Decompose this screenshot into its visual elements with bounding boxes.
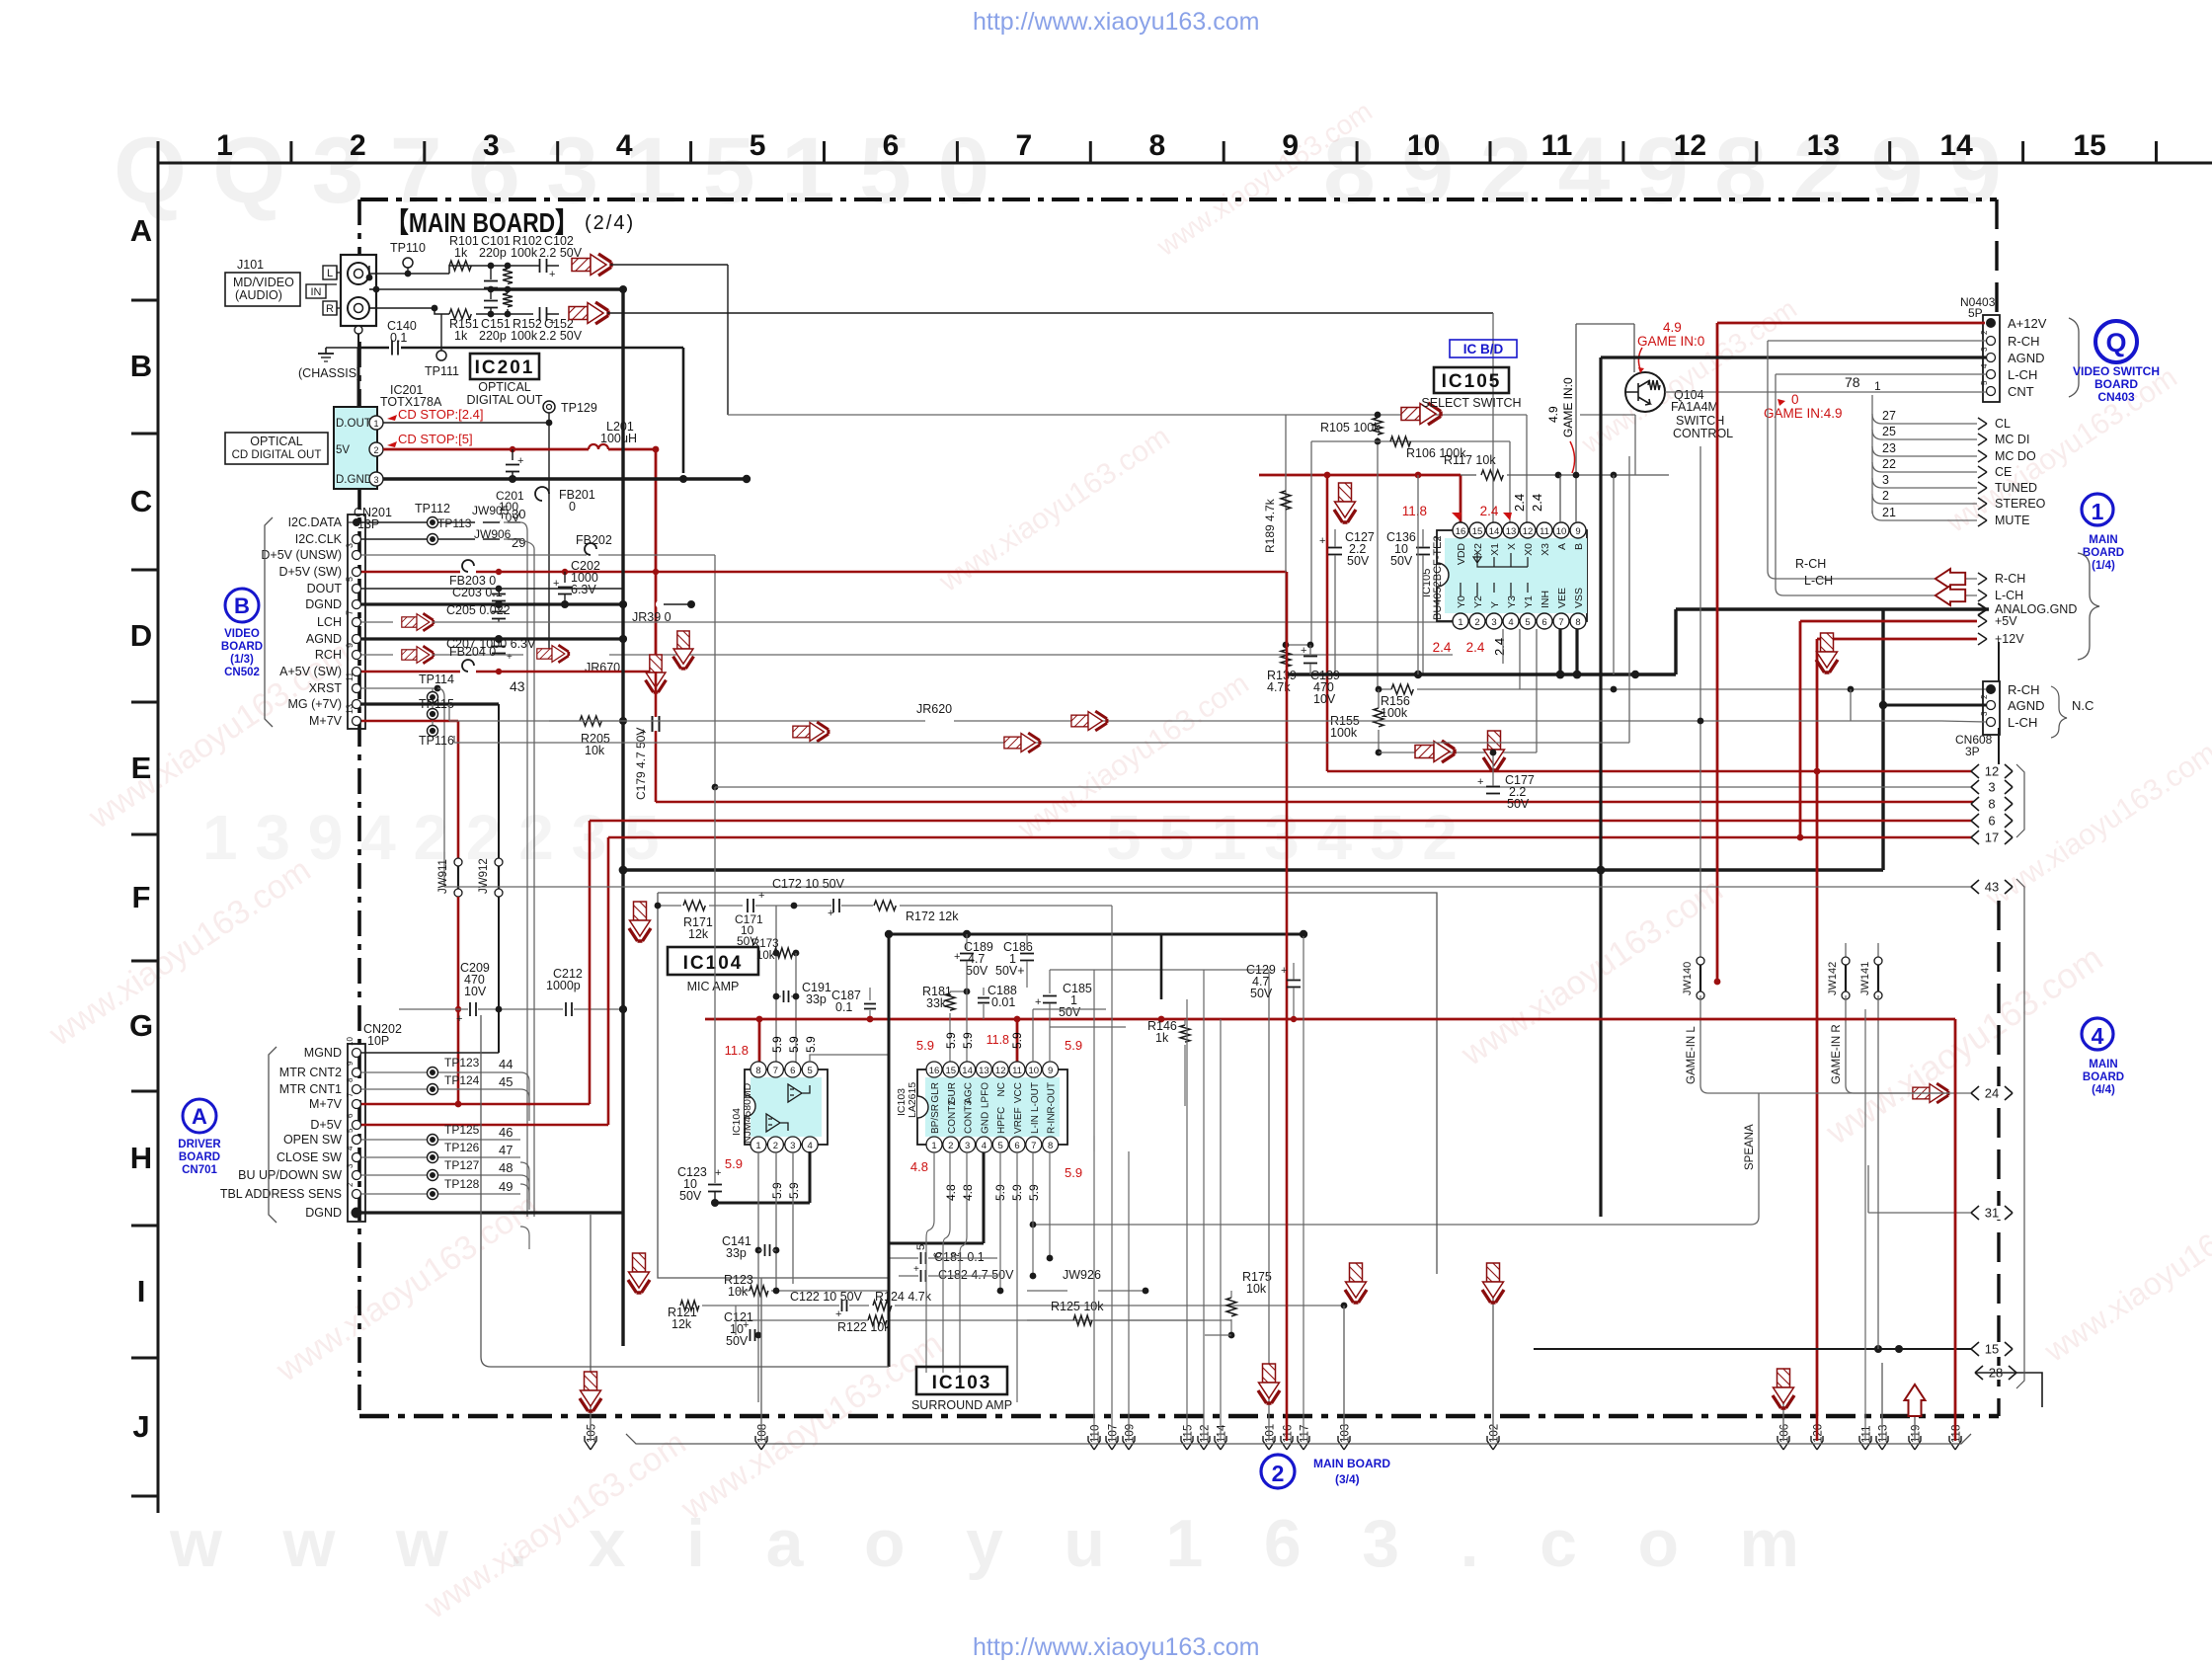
svg-text:R-IN: R-IN (1047, 1113, 1058, 1134)
svg-text:2: 2 (773, 1141, 778, 1151)
wire gray rail y797 to tag3 (715, 786, 1989, 788)
svg-text:D+5V (SW): D+5V (SW) (278, 565, 342, 579)
wire TBL ADDRESS SENS row (361, 1193, 520, 1195)
wire D.GND pin3 black (383, 477, 683, 480)
svg-text:D+5V (UNSW): D+5V (UNSW) (261, 548, 342, 562)
wire DGND row thick (361, 602, 623, 605)
svg-text:R117 10k: R117 10k (1444, 453, 1496, 467)
svg-text:BOARD: BOARD (221, 641, 263, 653)
IC B/D blue label (1450, 340, 1517, 357)
wire I2C.CLK row (361, 538, 520, 540)
svg-text:JW911: JW911 (437, 859, 449, 894)
svg-text:IC B/D: IC B/D (1463, 342, 1504, 356)
svg-text:13: 13 (345, 704, 355, 714)
op-amp U IC201 optical transmitter body (334, 407, 377, 489)
svg-text:TP127: TP127 (444, 1158, 480, 1172)
wire y982 link line (1050, 969, 1269, 971)
wire MG down jumper JW912 path (498, 704, 500, 858)
arrow RCH mid (537, 645, 569, 663)
wire D+5V SW red to tag116 column (476, 571, 1287, 574)
N0403 pin 1 A+12V (1986, 318, 1996, 328)
svg-text:100k: 100k (1330, 726, 1358, 740)
svg-text:15: 15 (1472, 526, 1483, 537)
svg-text:+12V: +12V (1995, 632, 2024, 646)
arrow down tag101 (1258, 1364, 1280, 1403)
svg-text:2.4: 2.4 (1466, 640, 1485, 655)
CN201 pin RCH (353, 651, 361, 660)
svg-text:30: 30 (512, 507, 525, 521)
wire JW141 column down (1877, 995, 1879, 1349)
wire AGND row thick (361, 637, 623, 640)
svg-text:5.9: 5.9 (804, 1036, 818, 1053)
wire signal CL (1872, 414, 1977, 424)
svg-text:14: 14 (1489, 526, 1500, 537)
svg-text:JW926: JW926 (1063, 1268, 1101, 1282)
svg-text:CN403: CN403 (2097, 390, 2135, 404)
svg-text:D.OUT: D.OUT (336, 418, 371, 430)
wire Q104 collector to CNT (1665, 391, 1856, 393)
svg-text:R-CH: R-CH (1795, 557, 1826, 571)
svg-text:G: G (129, 1008, 153, 1043)
svg-text:Y1: Y1 (1523, 595, 1535, 608)
svg-text:5: 5 (808, 1066, 813, 1076)
svg-text:C186: C186 (1003, 940, 1033, 954)
svg-text:7: 7 (773, 1066, 778, 1076)
svg-text:FB204 0: FB204 0 (449, 645, 496, 659)
svg-text:220p: 220p (479, 246, 507, 260)
op-amp IC105 BU4052BCF-TE2 body (1437, 530, 1587, 621)
test point TP123 (428, 1068, 438, 1078)
IC105 label box (1434, 367, 1509, 393)
wire CLOSE SW row (361, 1156, 520, 1158)
IC104 pin 1 (750, 1137, 766, 1152)
svg-text:24: 24 (1985, 1086, 1999, 1101)
IC104 pin 6 (785, 1062, 801, 1077)
svg-text:(CHASSIS): (CHASSIS) (298, 366, 360, 380)
svg-text:14: 14 (1940, 129, 1974, 162)
CN201 pin AGND (353, 635, 361, 644)
jumper JR670 (581, 651, 589, 659)
svg-text:8: 8 (1048, 1141, 1053, 1151)
svg-text:5.9: 5.9 (770, 1182, 784, 1199)
wire column 107 (1111, 906, 1113, 1441)
node tag 8 (1971, 797, 2013, 811)
svg-text:L-OUT: L-OUT (1030, 1082, 1041, 1112)
svg-text:J101: J101 (237, 258, 264, 272)
svg-text:0.1: 0.1 (835, 1000, 852, 1014)
IC105 pin 8 VSS (1570, 613, 1586, 629)
test point TP127 (428, 1170, 438, 1181)
svg-text:R172 12k: R172 12k (906, 910, 959, 923)
svg-text:INH: INH (1540, 591, 1551, 608)
IC104 pin 5 (802, 1062, 818, 1077)
svg-text:VDD: VDD (1456, 543, 1467, 566)
wire MTR CNT1 row (361, 1088, 520, 1090)
svg-text:5: 5 (346, 1128, 355, 1133)
svg-text:5.9: 5.9 (1065, 1165, 1082, 1180)
svg-text:11: 11 (1540, 526, 1549, 537)
CN202 pin BU UP/DOWN SW (353, 1171, 361, 1180)
arrow out R (569, 302, 608, 324)
node bottom tag 117 (1298, 1436, 1309, 1450)
svg-text:I2C.CLK: I2C.CLK (295, 532, 343, 546)
arrow right JR620 line (1071, 711, 1107, 731)
wire IC104 pin5 loop (810, 1027, 889, 1063)
svg-text:10P: 10P (367, 1034, 389, 1048)
wire tag31 line (1868, 1212, 1971, 1214)
svg-text:X: X (1506, 543, 1518, 550)
svg-text:117: 117 (1300, 1425, 1311, 1443)
svg-text:TP125: TP125 (444, 1123, 480, 1137)
svg-text:TP128: TP128 (444, 1177, 480, 1191)
svg-text:C185: C185 (1063, 982, 1092, 995)
svg-text:NJM4580MD: NJM4580MD (742, 1082, 753, 1144)
svg-text:9: 9 (1575, 526, 1580, 537)
RCA jack body J101 (341, 255, 376, 326)
wire red rail y781 to tag12 (1327, 770, 1989, 773)
arrow left R-CH (1935, 569, 1965, 589)
IC104 pin 4 (802, 1137, 818, 1152)
IC103 pin 5 HPFC (992, 1137, 1008, 1152)
svg-text:AGND: AGND (2008, 351, 2045, 365)
label B video board circle (225, 589, 259, 622)
svg-text:IC104: IC104 (683, 953, 744, 974)
svg-text:23: 23 (1882, 441, 1896, 455)
IC105 pin 10 A (1553, 522, 1569, 538)
wire column 114 (1220, 1019, 1222, 1441)
IC103 pin 7 L-IN (1026, 1137, 1042, 1152)
wire CL group bus vertical (1871, 395, 1873, 514)
svg-text:4.9: 4.9 (1546, 406, 1560, 423)
arrow down tag106 (1773, 1369, 1794, 1408)
svg-text:E: E (131, 751, 152, 785)
ground chassis symbol (355, 326, 362, 334)
svg-text:TP116: TP116 (419, 734, 454, 748)
arrow right on R105 line (1401, 403, 1441, 425)
wire R173 column (775, 906, 777, 1063)
wire I2C.DATA row (361, 521, 520, 523)
svg-text:10k: 10k (585, 744, 605, 757)
svg-text:9: 9 (346, 1061, 355, 1066)
IC105 pin 13 X (1503, 522, 1519, 538)
svg-text:8: 8 (346, 1077, 355, 1082)
svg-text:106: 106 (1779, 1424, 1791, 1443)
red label CD STOP 2.4 (387, 415, 397, 421)
IC103 pin 10 L-OUT (1026, 1062, 1042, 1077)
svg-text:JW905: JW905 (472, 504, 510, 517)
wire line from L out arrow to R105 area (727, 265, 729, 415)
svg-text:+: + (549, 317, 555, 329)
svg-text:33k: 33k (926, 996, 947, 1010)
wire column 103 (1343, 1306, 1345, 1441)
svg-text:118: 118 (1951, 1425, 1963, 1443)
main board outline dashed right edge lower (1997, 901, 2000, 1416)
svg-text:5.9: 5.9 (916, 1038, 934, 1053)
test point TP128 (428, 1189, 438, 1200)
IC103 pin 14 AGC (960, 1062, 976, 1077)
svg-text:4: 4 (2092, 1023, 2104, 1049)
IC103 pin 16 GLR (926, 1062, 942, 1077)
svg-text:L: L (327, 268, 333, 279)
wire R117 line (1461, 474, 1476, 476)
svg-text:50V: 50V (679, 1189, 702, 1203)
label 4 main board 4/4 (2082, 1018, 2113, 1050)
svg-text:+5V: +5V (1995, 614, 2017, 628)
wire column 111 (1864, 1009, 1866, 1441)
wire 5V red from pin2 (383, 448, 589, 451)
jumper JW906 (475, 535, 483, 543)
svg-text:0: 0 (1791, 392, 1799, 407)
IC103 pin 12 NC (992, 1062, 1008, 1077)
svg-text:SELECT SWITCH: SELECT SWITCH (1421, 396, 1521, 410)
wire signal TUNED (1872, 478, 1977, 488)
svg-text:113: 113 (1878, 1425, 1890, 1443)
wire IC103 L-OUT R-OUT up (1032, 1009, 1034, 1063)
svg-text:(1/3): (1/3) (230, 654, 254, 666)
N0403 pin 5 CNT (1987, 387, 1996, 396)
node +12V chevron (1978, 633, 1987, 645)
svg-text:15: 15 (946, 1066, 957, 1076)
node tag 24 (1971, 1086, 2013, 1100)
node bottom tag 118 (1949, 1436, 1961, 1450)
svg-text:NC: NC (996, 1082, 1007, 1096)
svg-text:17: 17 (1985, 831, 1999, 845)
svg-text:3: 3 (1988, 780, 1995, 795)
svg-text:M+7V: M+7V (309, 1097, 343, 1111)
svg-text:AGND: AGND (2008, 698, 2045, 713)
svg-text:100k: 100k (511, 246, 538, 260)
outer mic amp section box (481, 1015, 889, 1367)
node tag 3 (1971, 780, 2013, 794)
node tag 15 (1971, 1342, 2013, 1356)
wire C189 column to pin14 (966, 961, 968, 1063)
wire signal STEREO (1872, 494, 1977, 504)
label Q video switch board (2095, 321, 2137, 362)
svg-text:15: 15 (2073, 129, 2105, 162)
wire 5V red down at x664 (655, 449, 658, 672)
svg-text:CNT: CNT (2008, 384, 2034, 399)
wire AGND bus vertical thick (621, 289, 624, 1346)
test point TP112 (428, 517, 438, 528)
node MUTE chevron (1978, 515, 1987, 526)
svg-text:14: 14 (962, 1066, 973, 1076)
wire second mid line y752 (453, 736, 455, 743)
wire CN608 AGND thick (1883, 704, 1986, 707)
arrow down on chassis column (673, 631, 694, 669)
wire tag15 line (1534, 1348, 1971, 1350)
node tag 12 (1971, 764, 2013, 778)
wire C140 right vertical to DGND (682, 348, 685, 473)
svg-text:IC105: IC105 (1442, 371, 1502, 392)
svg-text:MC DO: MC DO (1995, 449, 2036, 463)
svg-text:IC103: IC103 (932, 1373, 992, 1393)
svg-text:+: + (1434, 532, 1440, 544)
svg-text:8: 8 (755, 1066, 760, 1076)
IC104 pin 2 (767, 1137, 783, 1152)
wire ground rail IC105 thick (1286, 673, 1676, 675)
svg-text:107: 107 (1108, 1424, 1120, 1443)
resistor R171 12k (683, 901, 705, 911)
svg-text:9: 9 (1048, 1066, 1053, 1076)
IC103 pin 9 R-OUT (1043, 1062, 1059, 1077)
svg-text:MG (+7V): MG (+7V) (287, 697, 342, 711)
CN201 pin D+5V (SW) (353, 568, 361, 577)
svg-text:+: + (456, 1013, 462, 1025)
wire TP111 stub (440, 314, 442, 351)
svg-text:5: 5 (750, 129, 766, 162)
svg-text:5.9: 5.9 (787, 1036, 801, 1053)
svg-text:119: 119 (1911, 1425, 1923, 1443)
CN202 pin DGND (352, 1208, 362, 1219)
CN202 pin CLOSE SW (353, 1153, 361, 1162)
main board outline dash-dot left edge (357, 199, 361, 1416)
svg-text:C: C (130, 484, 152, 518)
arrow down at C127 (1334, 483, 1356, 522)
wire column 113 (1881, 1363, 1883, 1441)
wire column 117 (1303, 936, 1304, 1441)
arrow down mid 102 (1482, 1263, 1504, 1303)
svg-text:50V: 50V (1390, 554, 1413, 568)
svg-text:44: 44 (499, 1057, 513, 1071)
node bottom tag 105 (585, 1436, 596, 1450)
svg-text:12k: 12k (671, 1317, 692, 1331)
resistor R151 (449, 309, 471, 319)
svg-text:0.01: 0.01 (991, 995, 1015, 1009)
capacitor C177 2.2 50V (1483, 731, 1505, 770)
svg-text:10: 10 (1556, 526, 1567, 537)
red label CD STOP 5 (387, 441, 397, 447)
svg-text:12: 12 (1674, 129, 1706, 162)
CN201 pin D+5V (UNSW) (353, 551, 361, 560)
ferrite bead FB203 (462, 560, 474, 572)
jumper JW905 (475, 518, 483, 526)
arrow right tag24 (1913, 1083, 1948, 1103)
svg-text:A: A (1556, 543, 1568, 550)
wire N0403 L-CH (1776, 373, 1986, 375)
svg-text:116: 116 (1283, 1425, 1295, 1443)
svg-text:CONT2: CONT2 (947, 1100, 958, 1134)
svg-text:0: 0 (569, 500, 576, 514)
svg-text:5.9: 5.9 (1010, 1032, 1024, 1049)
svg-text:25: 25 (1882, 425, 1896, 438)
svg-text:7: 7 (1558, 617, 1563, 628)
svg-text:+: + (835, 1308, 841, 1320)
svg-text:5: 5 (345, 577, 355, 582)
wire column 112 (1203, 970, 1205, 1441)
node tag 28 (1975, 1366, 2016, 1380)
wire A+12V red (1717, 322, 1985, 325)
svg-text:7: 7 (346, 1092, 355, 1097)
svg-text:12: 12 (1523, 526, 1534, 537)
wire +12V red vertical to tag 120 (1816, 639, 1819, 1416)
svg-text:220p: 220p (479, 329, 507, 343)
svg-text:GND: GND (980, 1112, 990, 1134)
svg-text:4: 4 (1508, 617, 1513, 628)
svg-text:JW141: JW141 (1859, 962, 1871, 995)
node bottom tag 106 (1777, 1436, 1789, 1450)
svg-text:3: 3 (965, 1141, 970, 1151)
svg-text:+: + (507, 652, 513, 663)
N0403 pin 2 R-CH (1987, 337, 1996, 346)
wire game switch columns (1559, 475, 1561, 522)
svg-text:10k: 10k (728, 1285, 749, 1299)
svg-text:+: + (1281, 965, 1287, 977)
svg-text:5P: 5P (1968, 306, 1983, 320)
node bottom tag 119 (1909, 1436, 1921, 1450)
arrow right JR620 line2 (793, 722, 829, 742)
IC103 pin 15 GUR (943, 1062, 959, 1077)
svg-text:B: B (130, 349, 152, 383)
svg-text:8: 8 (1148, 129, 1165, 162)
svg-text:OPEN SW: OPEN SW (283, 1133, 342, 1147)
svg-text:X2: X2 (1472, 543, 1484, 556)
label A driver board circle (183, 1099, 216, 1133)
ferrite bead FB202 (585, 543, 596, 555)
wire red into IC103 VCC (1016, 1019, 1019, 1063)
arrow left L-CH (1935, 586, 1965, 605)
wire column 115 (1186, 999, 1188, 1441)
IC201 label box (470, 354, 539, 379)
wire L channel row (369, 273, 449, 275)
capacitor C201 100 10V (510, 446, 515, 452)
wire MG +7V row thick (361, 702, 499, 705)
svg-text:1: 1 (216, 129, 233, 162)
test point TP110 (403, 258, 413, 268)
test point TP116 (432, 721, 434, 726)
svg-text:GAME-IN L: GAME-IN L (1686, 1026, 1698, 1084)
svg-text:BOARD: BOARD (2083, 547, 2124, 559)
ferrite bead FB204 (462, 660, 474, 672)
top ruler ticks (157, 141, 160, 163)
test point TP129 (543, 401, 555, 413)
svg-text:13: 13 (979, 1066, 989, 1076)
main board outline dash-dot top edge (360, 198, 1997, 201)
svg-text:4.8: 4.8 (944, 1184, 958, 1201)
svg-text:50V: 50V (726, 1334, 749, 1348)
node bottom tag 114 (1215, 1436, 1226, 1450)
CN202 pin MTR CNT1 (353, 1085, 361, 1094)
svg-text:4: 4 (346, 1146, 355, 1150)
wire MGND row (361, 1052, 499, 1054)
CN201 pin A+5V (SW) (353, 668, 361, 676)
svg-text:50V: 50V (1347, 554, 1370, 568)
svg-text:4: 4 (808, 1141, 813, 1151)
svg-text:A: A (192, 1104, 207, 1129)
svg-text:49: 49 (499, 1179, 513, 1194)
svg-text:SPEANA: SPEANA (1744, 1124, 1756, 1170)
wire IC104 red supply rail (705, 1018, 1955, 1021)
svg-text:5.9: 5.9 (787, 1182, 801, 1199)
svg-text:Q: Q (2105, 328, 2126, 357)
wire DOUT row (361, 588, 623, 590)
label 1 main board 1/4 (2082, 494, 2113, 525)
svg-text:TP112: TP112 (415, 502, 450, 515)
label IC104 box (668, 947, 758, 975)
svg-text:10: 10 (346, 1037, 355, 1046)
wire I2C.DATA curve down (504, 522, 527, 1217)
node bottom tag 101 (1263, 1436, 1275, 1450)
svg-text:D: D (130, 618, 152, 653)
svg-text:C179 4.7 50V: C179 4.7 50V (634, 728, 648, 800)
bracket tags group B (2016, 879, 2024, 1388)
node tag 17 (1971, 831, 2013, 844)
svg-text:BU4052BCF-TE2: BU4052BCF-TE2 (1432, 535, 1444, 620)
CN202 pin OPEN SW (353, 1136, 361, 1145)
node bottom tag 112 (1198, 1436, 1210, 1450)
wire IN common (369, 288, 376, 290)
svg-text:C172 10 50V: C172 10 50V (772, 877, 845, 891)
wire +5V red (1800, 620, 1977, 623)
